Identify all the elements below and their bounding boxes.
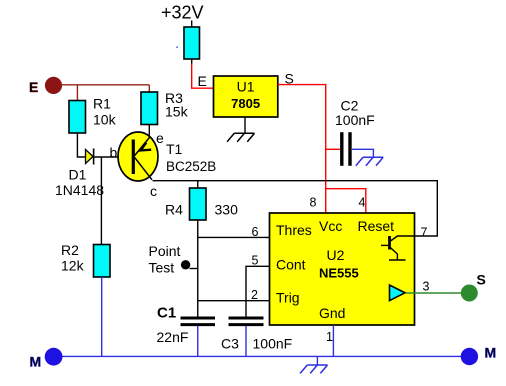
wire (top wire to R4) [197, 181, 199, 188]
svg-text:Thres: Thres [276, 222, 312, 238]
node M right [461, 348, 478, 365]
svg-text:T1: T1 [166, 141, 183, 157]
wire (C1 bottom to bus, blue) [197, 326, 199, 356]
node Point Test probe [181, 260, 190, 269]
svg-text:Vcc: Vcc [319, 218, 342, 234]
svg-text:7805: 7805 [231, 96, 260, 111]
svg-text:5: 5 [252, 254, 259, 268]
svg-text:b: b [110, 145, 118, 161]
resistor R2 [94, 245, 111, 278]
svg-text:C1: C1 [157, 305, 176, 322]
wire (C3 bottom to bus, blue) [245, 326, 247, 356]
wire (branch to pin 2 Trig) [198, 300, 270, 302]
svg-text:7: 7 [421, 226, 428, 240]
wire (R1 bottom to diode anode) [77, 133, 85, 157]
wire (test point stub) [190, 268, 199, 270]
wire (pin 5 Cont down to C3) [246, 266, 270, 316]
svg-text:R4: R4 [165, 202, 183, 218]
wire (red net S: U1 out, down to pin 8) [278, 85, 326, 213]
svg-text:Reset: Reset [358, 218, 395, 234]
wire (dark red branch down to R1) [76, 85, 78, 101]
svg-text:R1: R1 [93, 96, 111, 112]
wire (R3 bottom to emitter) [148, 125, 150, 139]
svg-text:U2: U2 [327, 247, 345, 263]
ground (C2, blue) [356, 157, 383, 165]
svg-text:1: 1 [326, 330, 333, 344]
capacitor C1 22nF [181, 318, 216, 325]
wire (stub from +32V to supply resistor) [191, 21, 193, 28]
svg-text:22nF: 22nF [157, 329, 189, 345]
resistor R4 [190, 188, 207, 220]
svg-text:Trig: Trig [276, 290, 300, 306]
svg-text:D1: D1 [69, 167, 87, 183]
transistor (U2 internal discharge) [381, 236, 414, 260]
svg-text:BC252B: BC252B [166, 159, 216, 174]
svg-text:C3: C3 [221, 336, 239, 352]
svg-text:R2: R2 [61, 242, 79, 258]
wire (bottom M bus, blue) [54, 355, 470, 357]
wire (diode cathode to transistor base) [94, 156, 132, 158]
svg-text:1N4148: 1N4148 [55, 182, 104, 198]
wire (pin 3 output, green) [406, 292, 462, 294]
transistor T1 BC252B [118, 132, 158, 181]
node S output [461, 285, 478, 302]
svg-text:15k: 15k [165, 104, 189, 120]
capacitor C3 100nF [229, 318, 264, 325]
buffer (U2 output triangle) [390, 285, 406, 301]
wire (branch to pin 6 Thres) [198, 236, 270, 238]
node E terminal [45, 77, 62, 94]
svg-text:12k: 12k [61, 258, 85, 274]
svg-text:Gnd: Gnd [319, 305, 345, 321]
wire (red branch to pin 4 Reset) [326, 189, 366, 213]
wire (red from supply resistor to U1 input, net E) [192, 64, 214, 89]
ground (bottom, blue) [300, 356, 327, 373]
resistor R3 [141, 92, 158, 125]
svg-text:8: 8 [310, 196, 317, 210]
svg-text:10k: 10k [93, 112, 117, 128]
svg-text:4: 4 [359, 196, 366, 210]
svg-text:Test: Test [149, 260, 175, 276]
svg-text:S: S [477, 272, 486, 288]
wire (stray stub mark) [176, 46, 178, 48]
wire (R4 down to C1) [197, 220, 199, 317]
svg-text:100nF: 100nF [335, 112, 375, 128]
wire (collector run to pin 7 loop) [153, 181, 438, 236]
wire (branch down to R2) [100, 157, 102, 245]
wire (dark red horizontal from E node to R3 top) [60, 84, 149, 86]
node M left [45, 348, 63, 366]
svg-text:2: 2 [251, 288, 258, 302]
svg-text:M: M [30, 354, 42, 370]
svg-text:U1: U1 [237, 78, 255, 94]
svg-text:100nF: 100nF [253, 336, 293, 352]
svg-text:c: c [150, 183, 157, 199]
svg-text:e: e [156, 130, 164, 146]
svg-text:3: 3 [423, 280, 430, 294]
svg-text:330: 330 [215, 202, 239, 218]
wire (dark red down to R3) [148, 85, 150, 92]
svg-text:NE555: NE555 [319, 266, 359, 281]
resistor R1 [69, 101, 86, 134]
op-amp U2 NE555 timer box [270, 213, 415, 325]
op-amp U1 7805 regulator box [214, 76, 278, 117]
wire (R2 bottom to M bus, blue) [101, 277, 103, 356]
wire (red stub to C2) [326, 148, 340, 150]
svg-text:+32V: +32V [161, 3, 204, 23]
svg-text:E: E [198, 73, 207, 89]
diode D1 [86, 149, 94, 165]
svg-text:Cont: Cont [276, 257, 306, 273]
svg-text:M: M [485, 345, 497, 361]
ground (U1, black) [227, 117, 254, 142]
wire (black stub below supply resistor) [191, 59, 193, 64]
svg-text:E: E [29, 79, 38, 95]
wire (blue from C2 to ground) [352, 149, 373, 157]
svg-text:Point: Point [149, 243, 181, 259]
capacitor C2 100nF [342, 132, 350, 166]
wire (pin 1 Gnd to bus, blue) [332, 325, 334, 356]
resistor (supply series, unlabelled) [184, 27, 200, 59]
